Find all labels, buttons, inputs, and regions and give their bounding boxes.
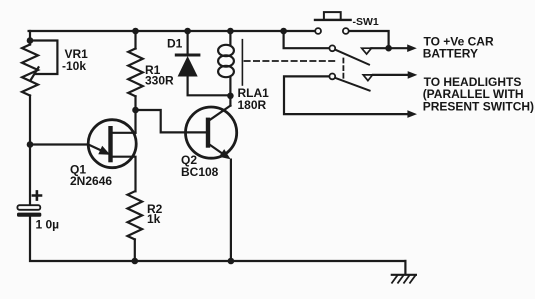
svg-text:330R: 330R bbox=[145, 74, 174, 88]
svg-text:-SW1: -SW1 bbox=[353, 16, 379, 28]
svg-text:D1: D1 bbox=[167, 37, 183, 51]
svg-text:BATTERY: BATTERY bbox=[423, 47, 478, 61]
svg-text:-10k: -10k bbox=[62, 59, 86, 73]
svg-text:2N2646: 2N2646 bbox=[70, 174, 112, 188]
svg-text:1 0µ: 1 0µ bbox=[36, 218, 60, 232]
svg-text:BC108: BC108 bbox=[181, 165, 219, 179]
svg-text:1k: 1k bbox=[147, 212, 161, 226]
svg-text:PRESENT SWITCH): PRESENT SWITCH) bbox=[423, 99, 534, 113]
svg-text:180R: 180R bbox=[238, 98, 267, 112]
